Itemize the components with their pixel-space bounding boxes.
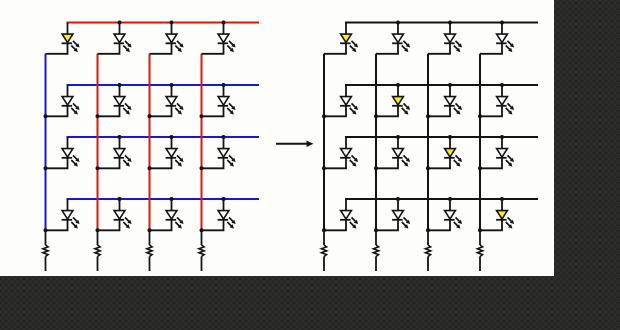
LED triangle: [445, 97, 456, 105]
junction: col 4 bus / row 3 cathode tap (right): [478, 166, 482, 170]
cathode bar: [166, 219, 177, 221]
cathode bar: [392, 157, 403, 159]
light emission arrows: [229, 155, 233, 159]
junction: col 2 bus / row 2 cathode tap (left): [96, 114, 100, 118]
resistor column 2 (left matrix): [95, 230, 100, 271]
cathode bar: [166, 157, 177, 159]
wire: cathode down and left to column bus: [376, 220, 398, 231]
LED triangle: [445, 34, 456, 42]
junction: col 4 bus / row 3 cathode tap (left): [200, 166, 204, 170]
cathode bar: [496, 105, 507, 107]
wire: anode stub: [223, 85, 225, 97]
wire: column 4 bus (right matrix): [479, 54, 481, 231]
cathode bar: [62, 157, 73, 159]
LED triangle: [393, 211, 404, 219]
cathode bar: [114, 157, 125, 159]
wire: column 1 bus (right matrix): [323, 54, 325, 231]
light emission arrows: [352, 217, 356, 221]
wire: anode stub: [397, 137, 399, 149]
wire: column 1 bus (left matrix): [45, 54, 47, 231]
light emission arrows: [508, 103, 512, 107]
LED triangle: [497, 149, 508, 157]
light emission arrows: [229, 41, 233, 45]
LED triangle: [393, 149, 404, 157]
wire: anode stub: [223, 137, 225, 149]
cathode bar: [114, 105, 125, 107]
LED left matrix row4 col4: [202, 199, 236, 230]
light emission arrows: [456, 155, 460, 159]
junction: row 4 / col 2 anode tap (right): [396, 197, 400, 201]
wire: row 1 bus (right matrix): [345, 22, 538, 24]
resistor column 4 (left matrix): [199, 230, 204, 271]
cathode bar: [340, 42, 351, 44]
wire: anode stub: [397, 85, 399, 97]
wire: cathode down and left to column bus: [98, 106, 120, 117]
LED right matrix row4 col2: [376, 199, 410, 230]
wire: cathode down and left to column bus: [324, 220, 346, 231]
light emission arrows: [125, 217, 129, 221]
wire: cathode down and left to column bus: [428, 43, 450, 54]
LED triangle: [114, 211, 125, 219]
junction: row 3 / col 3 anode tap (right): [448, 135, 452, 139]
cathode bar: [496, 42, 507, 44]
LED triangle: [62, 34, 73, 42]
cathode bar: [62, 42, 73, 44]
LED right matrix row4 col3: [428, 199, 462, 230]
wire: cathode down and left to column bus: [376, 106, 398, 117]
cathode bar: [444, 219, 455, 221]
junction: row 4 / col 3 anode tap (right): [448, 197, 452, 201]
junction: col 3 bus / row 3 cathode tap (right): [426, 166, 430, 170]
wire: row 2 bus (right matrix): [345, 84, 538, 86]
wire: anode stub: [345, 85, 347, 97]
wire: row 4 bus (right matrix): [345, 198, 538, 200]
wire: anode stub: [345, 137, 347, 149]
wire: column 2 bus (right matrix): [375, 54, 377, 231]
LED triangle: [114, 149, 125, 157]
wire: anode stub: [171, 85, 173, 97]
wire: anode stub: [449, 137, 451, 149]
wire: anode stub: [501, 85, 503, 97]
LED right matrix row1 col1 (lit): [324, 23, 358, 54]
wire: anode stub: [449, 199, 451, 211]
wire: anode stub: [119, 199, 121, 211]
light emission arrows: [508, 155, 512, 159]
LED triangle: [341, 211, 352, 219]
junction: col 1 bus / row 2 cathode tap (right): [322, 114, 326, 118]
cathode bar: [114, 219, 125, 221]
wire: cathode down and left to column bus: [376, 158, 398, 169]
resistor column 3 (right matrix): [425, 230, 430, 271]
wire: anode stub: [119, 137, 121, 149]
light emission arrows: [177, 155, 181, 159]
junction: col 3 bus / row 3 cathode tap (left): [148, 166, 152, 170]
cathode bar: [340, 157, 351, 159]
LED left matrix row4 col3: [150, 199, 184, 230]
wire: cathode down and left to column bus: [46, 220, 68, 231]
junction: row 1 / col 3 anode tap (left): [170, 21, 174, 25]
wire: cathode down and left to column bus: [376, 43, 398, 54]
junction: row 4 / col 2 anode tap (left): [118, 197, 122, 201]
arrow: transition between frames: [276, 141, 314, 147]
wire: cathode down and left to column bus: [46, 158, 68, 169]
LED triangle: [218, 34, 229, 42]
wire: column 3 bus (right matrix): [427, 54, 429, 231]
LED triangle: [62, 211, 73, 219]
cathode bar: [444, 105, 455, 107]
LED right matrix row3 col3 (lit): [428, 137, 462, 168]
wire: anode stub: [345, 199, 347, 211]
wire: anode stub: [67, 23, 69, 35]
junction: col 1 bus / row 3 cathode tap (right): [322, 166, 326, 170]
wire: anode stub: [501, 199, 503, 211]
wire: cathode down and left to column bus: [98, 220, 120, 231]
light emission arrows: [456, 217, 460, 221]
light emission arrows: [404, 41, 408, 45]
LED triangle: [218, 149, 229, 157]
LED triangle: [218, 97, 229, 105]
junction: col 2 bus / row 3 cathode tap (left): [96, 166, 100, 170]
wire: cathode down and left to column bus: [202, 158, 224, 169]
LED left matrix row1 col3: [150, 23, 184, 54]
junction: col 1 bus / row 4 cathode tap (left): [44, 228, 48, 232]
wire: column 2 bus (left matrix): [97, 54, 99, 231]
cathode bar: [392, 105, 403, 107]
junction: row 2 / col 2 anode tap (right): [396, 83, 400, 87]
wire: cathode down and left to column bus: [98, 43, 120, 54]
LED triangle: [393, 97, 404, 105]
LED right matrix row1 col4: [480, 23, 514, 54]
wire: anode stub: [501, 23, 503, 35]
LED triangle: [166, 97, 177, 105]
LED triangle: [114, 97, 125, 105]
LED left matrix row3 col3: [150, 137, 184, 168]
junction: col 1 bus / row 3 cathode tap (left): [44, 166, 48, 170]
junction: col 4 bus / row 2 cathode tap (left): [200, 114, 204, 118]
cathode bar: [218, 105, 229, 107]
LED triangle: [497, 211, 508, 219]
wire: anode stub: [501, 137, 503, 149]
cathode bar: [392, 219, 403, 221]
wire: cathode down and left to column bus: [428, 106, 450, 117]
light emission arrows: [125, 103, 129, 107]
wire: row 4 bus (left matrix): [67, 198, 260, 200]
cathode bar: [218, 219, 229, 221]
wire: cathode down and left to column bus: [46, 106, 68, 117]
light emission arrows: [404, 155, 408, 159]
wire: anode stub: [449, 23, 451, 35]
cathode bar: [62, 105, 73, 107]
junction: col 3 bus / row 4 cathode tap (right): [426, 228, 430, 232]
light emission arrows: [73, 155, 77, 159]
LED left matrix row4 col2: [98, 199, 132, 230]
junction: col 4 bus / row 4 cathode tap (left): [200, 228, 204, 232]
light emission arrows: [125, 155, 129, 159]
LED right matrix row3 col4: [480, 137, 514, 168]
LED right matrix row4 col4 (lit): [480, 199, 514, 230]
LED triangle: [166, 149, 177, 157]
light emission arrows: [125, 41, 129, 45]
cathode bar: [114, 42, 125, 44]
LED left matrix row2 col1: [46, 85, 80, 116]
junction: row 2 / col 3 anode tap (left): [170, 83, 174, 87]
junction: col 2 bus / row 4 cathode tap (right): [374, 228, 378, 232]
light emission arrows: [352, 41, 356, 45]
junction: row 3 / col 2 anode tap (right): [396, 135, 400, 139]
wire: cathode down and left to column bus: [480, 158, 502, 169]
junction: col 3 bus / row 4 cathode tap (left): [148, 228, 152, 232]
light emission arrows: [352, 103, 356, 107]
LED left matrix row3 col2: [98, 137, 132, 168]
LED right matrix row1 col3: [428, 23, 462, 54]
light emission arrows: [73, 217, 77, 221]
junction: col 2 bus / row 4 cathode tap (left): [96, 228, 100, 232]
cathode bar: [218, 157, 229, 159]
cathode bar: [496, 157, 507, 159]
junction: row 1 / col 4 anode tap (left): [222, 21, 226, 25]
wire: column 3 bus (left matrix): [149, 54, 151, 231]
junction: row 3 / col 2 anode tap (left): [118, 135, 122, 139]
wire: anode stub: [119, 85, 121, 97]
wire: cathode down and left to column bus: [98, 158, 120, 169]
cathode bar: [444, 42, 455, 44]
junction: col 4 bus / row 4 cathode tap (right): [478, 228, 482, 232]
wire: cathode down and left to column bus: [324, 158, 346, 169]
wire: cathode down and left to column bus: [480, 43, 502, 54]
junction: row 4 / col 4 anode tap (left): [222, 197, 226, 201]
LED triangle: [218, 211, 229, 219]
resistor column 2 (right matrix): [373, 230, 378, 271]
LED left matrix row2 col3: [150, 85, 184, 116]
LED right matrix row3 col2: [376, 137, 410, 168]
resistor column 1 (left matrix): [43, 230, 48, 271]
junction: row 1 / col 4 anode tap (right): [500, 21, 504, 25]
LED left matrix row1 col4: [202, 23, 236, 54]
LED triangle: [341, 34, 352, 42]
wire: cathode down and left to column bus: [150, 158, 172, 169]
junction: col 2 bus / row 3 cathode tap (right): [374, 166, 378, 170]
LED right matrix row2 col2 (lit): [376, 85, 410, 116]
LED triangle: [341, 97, 352, 105]
wire: anode stub: [449, 85, 451, 97]
cathode bar: [392, 42, 403, 44]
junction: row 1 / col 3 anode tap (right): [448, 21, 452, 25]
wire: row 1 bus (left matrix): [67, 22, 260, 24]
LED right matrix row2 col3: [428, 85, 462, 116]
wire: cathode down and left to column bus: [202, 106, 224, 117]
resistor column 3 (left matrix): [147, 230, 152, 271]
LED left matrix row1 col2: [98, 23, 132, 54]
wire: cathode down and left to column bus: [428, 220, 450, 231]
junction: col 1 bus / row 2 cathode tap (left): [44, 114, 48, 118]
junction: row 3 / col 3 anode tap (left): [170, 135, 174, 139]
light emission arrows: [229, 217, 233, 221]
light emission arrows: [177, 217, 181, 221]
junction: row 2 / col 4 anode tap (right): [500, 83, 504, 87]
LED triangle: [166, 34, 177, 42]
junction: col 4 bus / row 2 cathode tap (right): [478, 114, 482, 118]
junction: row 1 / col 2 anode tap (left): [118, 21, 122, 25]
wire: cathode down and left to column bus: [202, 43, 224, 54]
light emission arrows: [177, 103, 181, 107]
wire: anode stub: [171, 137, 173, 149]
wire: cathode down and left to column bus: [150, 106, 172, 117]
cathode bar: [496, 219, 507, 221]
light emission arrows: [456, 41, 460, 45]
LED left matrix row2 col4: [202, 85, 236, 116]
light emission arrows: [508, 217, 512, 221]
light emission arrows: [352, 155, 356, 159]
wire: row 3 bus (left matrix): [67, 136, 260, 138]
LED right matrix row1 col2: [376, 23, 410, 54]
junction: row 3 / col 4 anode tap (right): [500, 135, 504, 139]
wire: anode stub: [397, 23, 399, 35]
junction: row 2 / col 3 anode tap (right): [448, 83, 452, 87]
cathode bar: [444, 157, 455, 159]
wire: anode stub: [345, 23, 347, 35]
wire: anode stub: [67, 199, 69, 211]
wire: row 2 bus (left matrix): [67, 84, 260, 86]
wire: anode stub: [67, 85, 69, 97]
wire: anode stub: [397, 199, 399, 211]
LED triangle: [497, 34, 508, 42]
wire: anode stub: [223, 23, 225, 35]
wire: cathode down and left to column bus: [324, 106, 346, 117]
junction: row 2 / col 4 anode tap (left): [222, 83, 226, 87]
cathode bar: [62, 219, 73, 221]
wire: anode stub: [223, 199, 225, 211]
light emission arrows: [456, 103, 460, 107]
light emission arrows: [508, 41, 512, 45]
light emission arrows: [73, 41, 77, 45]
wire: row 3 bus (right matrix): [345, 136, 538, 138]
wire: cathode down and left to column bus: [150, 220, 172, 231]
wire: anode stub: [171, 199, 173, 211]
light emission arrows: [229, 103, 233, 107]
LED triangle: [445, 149, 456, 157]
resistor column 1 (right matrix): [321, 230, 326, 271]
wire: column 4 bus (left matrix): [201, 54, 203, 231]
cathode bar: [340, 105, 351, 107]
junction: col 1 bus / row 4 cathode tap (right): [322, 228, 326, 232]
LED triangle: [445, 211, 456, 219]
LED triangle: [62, 149, 73, 157]
wire: anode stub: [119, 23, 121, 35]
resistor column 4 (right matrix): [477, 230, 482, 271]
white schematic canvas: [0, 0, 554, 276]
junction: row 4 / col 4 anode tap (right): [500, 197, 504, 201]
LED left matrix row3 col1: [46, 137, 80, 168]
LED right matrix row3 col1: [324, 137, 358, 168]
cathode bar: [166, 105, 177, 107]
junction: col 3 bus / row 2 cathode tap (left): [148, 114, 152, 118]
wire: cathode down and left to column bus: [480, 106, 502, 117]
wire: cathode down and left to column bus: [324, 43, 346, 54]
junction: row 4 / col 3 anode tap (left): [170, 197, 174, 201]
wire: cathode down and left to column bus: [150, 43, 172, 54]
junction: row 3 / col 4 anode tap (left): [222, 135, 226, 139]
wire: cathode down and left to column bus: [202, 220, 224, 231]
junction: col 2 bus / row 2 cathode tap (right): [374, 114, 378, 118]
junction: col 3 bus / row 2 cathode tap (right): [426, 114, 430, 118]
junction: row 1 / col 2 anode tap (right): [396, 21, 400, 25]
light emission arrows: [404, 103, 408, 107]
junction: row 2 / col 2 anode tap (left): [118, 83, 122, 87]
wire: cathode down and left to column bus: [46, 43, 68, 54]
LED triangle: [341, 149, 352, 157]
cathode bar: [166, 42, 177, 44]
cathode bar: [218, 42, 229, 44]
LED right matrix row2 col4: [480, 85, 514, 116]
wire: anode stub: [171, 23, 173, 35]
LED right matrix row4 col1: [324, 199, 358, 230]
LED triangle: [393, 34, 404, 42]
cathode bar: [340, 219, 351, 221]
light emission arrows: [73, 103, 77, 107]
wire: cathode down and left to column bus: [480, 220, 502, 231]
LED left matrix row3 col4: [202, 137, 236, 168]
light emission arrows: [177, 41, 181, 45]
LED left matrix row2 col2: [98, 85, 132, 116]
LED left matrix row4 col1: [46, 199, 80, 230]
LED right matrix row2 col1: [324, 85, 358, 116]
LED triangle: [62, 97, 73, 105]
LED triangle: [497, 97, 508, 105]
light emission arrows: [404, 217, 408, 221]
wire: cathode down and left to column bus: [428, 158, 450, 169]
wire: anode stub: [67, 137, 69, 149]
LED triangle: [114, 34, 125, 42]
LED triangle: [166, 211, 177, 219]
LED left matrix row1 col1 (lit): [46, 23, 80, 54]
